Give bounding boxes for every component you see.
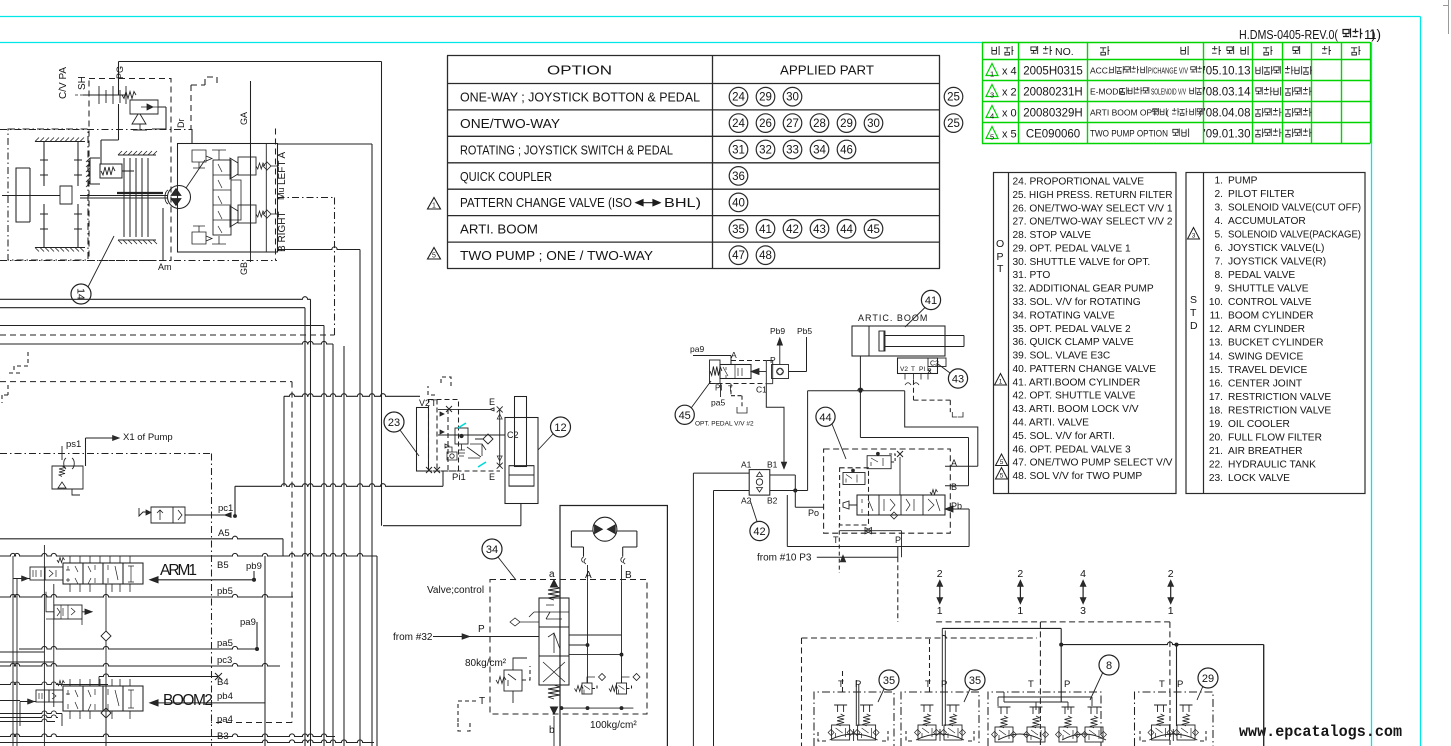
svg-text:34: 34: [486, 544, 498, 556]
svg-text:B5: B5: [217, 560, 229, 571]
C1 wire down to shuttle: [766, 384, 784, 464]
svg-text:46. OPT. PEDAL VALVE 3: 46. OPT. PEDAL VALVE 3: [1013, 444, 1131, 455]
svg-text:4: 4: [990, 112, 994, 121]
svg-text:E: E: [489, 472, 495, 482]
svg-text:O: O: [996, 238, 1004, 250]
dashed top/bottom of valve 45: [710, 361, 767, 384]
port wires: [0, 594, 293, 597]
svg-text:14: 14: [75, 288, 87, 300]
svg-text:pa4: pa4: [217, 714, 233, 725]
svg-text:44: 44: [819, 412, 831, 424]
svg-text:18.: 18.: [1209, 405, 1223, 416]
X marks at valve bottom: [426, 467, 440, 473]
svg-text:ARTI BOOM OPT.: ARTI BOOM OPT.: [1090, 108, 1159, 118]
svg-text:'08.04.08: '08.04.08: [1204, 108, 1251, 120]
port labels column: [217, 560, 262, 742]
svg-text:pa9: pa9: [240, 617, 256, 628]
STD parts list box: [1186, 173, 1365, 494]
svg-text:30: 30: [867, 118, 880, 130]
svg-text:C1: C1: [756, 385, 767, 395]
dash-dot control valve boundary: [0, 454, 212, 746]
svg-text:SOLENOID VALVE(CUT OFF): SOLENOID VALVE(CUT OFF): [1228, 203, 1361, 214]
svg-text:RESTRICTION VALVE: RESTRICTION VALVE: [1228, 405, 1331, 416]
svg-text:a: a: [549, 569, 555, 580]
svg-text:T: T: [479, 696, 485, 707]
svg-text:P: P: [478, 624, 485, 635]
svg-text:): ): [1199, 108, 1202, 118]
svg-text:25: 25: [947, 92, 960, 104]
svg-text:48. SOL V/V for TWO PUMP: 48. SOL V/V for TWO PUMP: [1013, 471, 1143, 482]
svg-text:33. SOL. V/V for ROTATING: 33. SOL. V/V for ROTATING: [1013, 297, 1141, 308]
44 labels: [808, 458, 962, 545]
svg-text:41: 41: [759, 224, 772, 236]
sub valve below ARM1: [54, 605, 82, 619]
svg-text:Mu: Mu: [276, 187, 286, 200]
OPT parts list box: [994, 173, 1177, 494]
svg-text:pb4: pb4: [217, 691, 233, 702]
svg-text:3: 3: [1192, 233, 1196, 240]
svg-text:ACCUMULATOR: ACCUMULATOR: [1228, 216, 1306, 227]
balloon 34: [482, 539, 502, 559]
svg-text:5: 5: [1000, 459, 1004, 466]
svg-text:T: T: [838, 679, 844, 690]
svg-text:BHL): BHL): [664, 196, 701, 210]
svg-text:Pb5: Pb5: [797, 326, 812, 336]
svg-text:QUICK COUPLER: QUICK COUPLER: [460, 170, 552, 184]
ARM1 output wire with left arrow: [150, 577, 254, 583]
svg-text:4.: 4.: [1215, 216, 1224, 227]
svg-text:B RIGHT: B RIGHT: [277, 211, 288, 252]
svg-text:26: 26: [759, 118, 772, 130]
svg-text:X1 of Pump: X1 of Pump: [123, 432, 173, 443]
svg-text:26. ONE/TWO-WAY SELECT V/V 1: 26. ONE/TWO-WAY SELECT V/V 1: [1013, 203, 1173, 214]
svg-text:T: T: [911, 366, 915, 373]
BOOM2 valve: [63, 686, 143, 711]
svg-text:17.: 17.: [1209, 392, 1223, 403]
X mark: [897, 451, 903, 457]
svg-text:1): 1): [1369, 27, 1381, 42]
svg-text:4: 4: [1080, 568, 1086, 580]
pattern change double arrow: [636, 200, 660, 206]
svg-text:12: 12: [554, 422, 566, 434]
svg-text:7.: 7.: [1215, 257, 1224, 268]
svg-text:A: A: [585, 570, 592, 581]
revision table (green): [982, 42, 1371, 144]
top wire PG: [119, 62, 382, 526]
svg-text:6.: 6.: [1215, 243, 1224, 254]
svg-text:P: P: [895, 535, 901, 545]
svg-text:CENTER JOINT: CENTER JOINT: [1228, 378, 1302, 389]
svg-text:V2: V2: [419, 398, 430, 408]
svg-text:TRAVEL DEVICE: TRAVEL DEVICE: [1228, 365, 1307, 376]
svg-text:x 2: x 2: [1002, 87, 1017, 99]
balloon 14: [71, 284, 91, 304]
svg-text:35: 35: [732, 224, 745, 236]
svg-text:Dr: Dr: [176, 119, 186, 129]
svg-text:12.: 12.: [1209, 324, 1223, 335]
svg-text:GA: GA: [239, 112, 249, 125]
svg-text:SWING DEVICE: SWING DEVICE: [1228, 351, 1303, 362]
svg-text:34. ROTATING VALVE: 34. ROTATING VALVE: [1013, 310, 1115, 321]
Am vertical: [162, 208, 164, 261]
svg-text:Po: Po: [808, 508, 819, 518]
svg-text:T: T: [925, 679, 931, 690]
svg-text:1: 1: [1017, 605, 1023, 617]
svg-text:B: B: [951, 482, 957, 492]
valve block box: [178, 144, 278, 253]
svg-text:A1: A1: [741, 460, 752, 470]
relief valves right side (trapezoids): [230, 158, 238, 179]
svg-text:29: 29: [759, 92, 772, 104]
svg-text:P: P: [855, 679, 861, 690]
svg-text:SH: SH: [77, 76, 88, 90]
svg-text:pb5: pb5: [217, 586, 233, 597]
inner dashed small boxes bottom: [818, 731, 1206, 741]
svg-text:'09.01.30: '09.01.30: [1204, 129, 1251, 141]
shuttle wires: [693, 473, 749, 746]
svg-text:CONTROL VALVE: CONTROL VALVE: [1228, 297, 1312, 308]
svg-text:3: 3: [1080, 605, 1086, 617]
spool 34: [539, 598, 569, 685]
svg-text:TWO PUMP OPTION: TWO PUMP OPTION: [1090, 129, 1168, 140]
svg-text:T: T: [1190, 307, 1197, 319]
svg-text:14.: 14.: [1209, 351, 1223, 362]
svg-text:P: P: [941, 679, 947, 690]
outer dashed box 44: [824, 449, 951, 533]
svg-text:SHUTTLE VALVE: SHUTTLE VALVE: [1228, 284, 1309, 295]
svg-text:25: 25: [947, 118, 960, 130]
svg-text:E-MODE: E-MODE: [1090, 87, 1124, 97]
svg-text:Pb9: Pb9: [770, 326, 785, 336]
svg-text:SOLENOID VALVE(PACKAGE): SOLENOID VALVE(PACKAGE): [1228, 230, 1361, 241]
lock valve 23: [417, 408, 429, 472]
svg-text:40: 40: [732, 197, 745, 209]
svg-text:8.: 8.: [1215, 270, 1224, 281]
svg-text:x 4: x 4: [1002, 66, 1017, 78]
svg-text:'08.03.14: '08.03.14: [1204, 87, 1252, 99]
group dash-dot boxes: [814, 692, 1213, 746]
svg-text:x 5: x 5: [1002, 129, 1017, 141]
balloon 23: [384, 412, 404, 432]
svg-text:39. SOL. VLAVE E3C: 39. SOL. VLAVE E3C: [1013, 351, 1111, 362]
diamond below BOOM2: [101, 708, 111, 718]
svg-text:45. SOL. V/V for ARTI.: 45. SOL. V/V for ARTI.: [1013, 431, 1115, 442]
svg-text:20.: 20.: [1209, 432, 1223, 443]
svg-text:1.: 1.: [1215, 176, 1224, 187]
svg-text:80kg/cm²: 80kg/cm²: [465, 658, 507, 669]
svg-text:30: 30: [786, 92, 799, 104]
inner dashed box: [840, 468, 869, 525]
svg-text:PG: PG: [115, 66, 125, 79]
svg-text:33: 33: [786, 145, 799, 157]
svg-text:APPLIED PART: APPLIED PART: [780, 64, 874, 78]
svg-text:35. OPT. PEDAL VALVE 2: 35. OPT. PEDAL VALVE 2: [1013, 324, 1131, 335]
svg-text:23.: 23.: [1209, 473, 1223, 484]
gearbox planetary gear symbol: [35, 142, 85, 248]
swing motor dashed box: [89, 79, 171, 261]
valve 23 internals and wires to cylinder: [438, 408, 494, 411]
Po wire: [787, 491, 969, 547]
svg-text:19.: 19.: [1209, 419, 1223, 430]
wire bundle y=486: [235, 471, 443, 516]
svg-text:LOCK VALVE: LOCK VALVE: [1228, 473, 1290, 484]
svg-text:PATTERN CHANGE VALVE (ISO: PATTERN CHANGE VALVE (ISO: [460, 196, 632, 210]
svg-text:3: 3: [990, 91, 994, 100]
svg-text:pc1: pc1: [218, 503, 233, 514]
svg-text:PI: PI: [715, 384, 723, 393]
svg-text:T: T: [1159, 679, 1165, 690]
dashed box 34: [490, 580, 647, 715]
svg-text:PUMP: PUMP: [1228, 176, 1258, 187]
svg-text:36. QUICK CLAMP VALVE: 36. QUICK CLAMP VALVE: [1013, 337, 1134, 348]
anti-cavitation valves top/bottom: [192, 150, 212, 168]
outer solid box of 34: [560, 506, 667, 746]
group 29 outer solid box: [1263, 645, 1265, 746]
svg-text:from #10 P3: from #10 P3: [757, 553, 812, 564]
svg-text:PI: PI: [919, 366, 925, 373]
svg-text:41. ARTI.BOOM CYLINDER: 41. ARTI.BOOM CYLINDER: [1013, 377, 1141, 388]
applied part balloons: [729, 87, 963, 264]
relief valve left: [504, 670, 522, 691]
motor loop: [571, 531, 593, 557]
svg-text:20080329H: 20080329H: [1023, 108, 1082, 120]
svg-text:35: 35: [969, 675, 981, 687]
svg-text:pa5: pa5: [217, 638, 233, 649]
svg-text:P: P: [1177, 679, 1183, 690]
svg-text:5: 5: [432, 253, 436, 260]
svg-text:AIR BREATHER: AIR BREATHER: [1228, 446, 1303, 457]
revision rows: content column mixed text: [1090, 66, 1312, 140]
cylinder 41 body: [852, 326, 945, 356]
balloon 12: [551, 417, 571, 437]
ARM1 valve: [63, 563, 143, 584]
svg-text:5: 5: [1000, 473, 1004, 480]
relief valves in 44: [867, 456, 891, 469]
svg-text:47: 47: [732, 250, 745, 262]
svg-text:GB: GB: [239, 262, 249, 275]
small shuttle + spring valve: [445, 444, 457, 460]
green triangles col1: [986, 64, 998, 76]
ARM1 valve top stubs: [70, 556, 130, 563]
svg-text:42. OPT. SHUTTLE VALVE: 42. OPT. SHUTTLE VALVE: [1013, 391, 1136, 402]
svg-text:11.: 11.: [1210, 311, 1223, 322]
shaft: [80, 196, 168, 199]
svg-text:JOYSTICK VALVE(L): JOYSTICK VALVE(L): [1228, 243, 1324, 254]
svg-text:2005H0315: 2005H0315: [1023, 66, 1082, 78]
svg-text:30. SHUTTLE VALVE for OPT.: 30. SHUTTLE VALVE for OPT.: [1013, 257, 1151, 268]
diamond check near C2: [475, 434, 493, 444]
svg-text:HYDRAULIC TANK: HYDRAULIC TANK: [1228, 459, 1316, 470]
svg-text:21.: 21.: [1209, 446, 1223, 457]
relief sub valve under pilot: [130, 100, 158, 114]
svg-text:NO.: NO.: [1055, 46, 1074, 58]
svg-text:41: 41: [925, 295, 937, 307]
svg-text:42: 42: [753, 526, 765, 538]
svg-text:24: 24: [732, 118, 745, 130]
svg-text:16.: 16.: [1209, 378, 1223, 389]
lock valve 43: [898, 358, 938, 374]
check line with bowtie: [839, 531, 901, 558]
svg-text:B2: B2: [767, 496, 778, 506]
svg-text:B: B: [625, 570, 632, 581]
valve block internals: spool stack: [213, 160, 231, 235]
svg-text:pb9: pb9: [246, 561, 262, 572]
svg-text:C2: C2: [507, 430, 519, 440]
svg-text:5: 5: [990, 133, 994, 142]
check valve + relief under ps1: [64, 458, 75, 469]
bottom bundle: [0, 740, 374, 743]
svg-text:29. OPT. PEDAL VALVE 1: 29. OPT. PEDAL VALVE 1: [1013, 243, 1131, 254]
svg-text:9.: 9.: [1215, 284, 1224, 295]
svg-text:BOOM CYLINDER: BOOM CYLINDER: [1228, 311, 1313, 322]
svg-text:43: 43: [952, 374, 964, 386]
svg-text:44. ARTI. VALVE: 44. ARTI. VALVE: [1013, 418, 1090, 429]
svg-text:TWO PUMP ; ONE / TWO-WAY: TWO PUMP ; ONE / TWO-WAY: [460, 249, 654, 263]
GA riser: [250, 81, 252, 252]
svg-text:A5: A5: [218, 528, 230, 539]
ARM1 left pilot boxes: [30, 567, 45, 580]
two small relief valves right: [582, 683, 592, 694]
svg-text:from #32: from #32: [393, 632, 433, 643]
svg-text:5.: 5.: [1215, 230, 1224, 241]
svg-text:LEFT A: LEFT A: [277, 152, 288, 185]
svg-text:40. PATTERN CHANGE VALVE: 40. PATTERN CHANGE VALVE: [1013, 364, 1157, 375]
small dashed bracket above: [428, 377, 451, 395]
svg-text:OIL COOLER: OIL COOLER: [1228, 419, 1290, 430]
svg-text:48: 48: [759, 250, 772, 262]
svg-text:S: S: [1190, 294, 1197, 306]
svg-text:13.: 13.: [1209, 338, 1223, 349]
svg-text:27. ONE/TWO-WAY SELECT V/V 2: 27. ONE/TWO-WAY SELECT V/V 2: [1013, 217, 1173, 228]
svg-text:OPT. PEDAL V/V #2: OPT. PEDAL V/V #2: [695, 421, 754, 428]
option table warning triangles: [428, 198, 441, 260]
P supply wires: [942, 628, 1061, 702]
swing device 14: gearbox dash-dot box: [8, 129, 88, 260]
diamond check a: [101, 631, 111, 641]
svg-text:22.: 22.: [1209, 459, 1223, 470]
svg-text:(: (: [1166, 108, 1169, 118]
svg-text:RESTRICTION VALVE: RESTRICTION VALVE: [1228, 392, 1331, 403]
T dashed risers: [843, 638, 1171, 746]
svg-text:Am: Am: [158, 262, 172, 272]
check valve block right of 45: [772, 365, 789, 379]
A5 wire + y=556 bundle: [0, 536, 283, 556]
svg-text:BOOM2: BOOM2: [163, 692, 213, 709]
svg-text:2: 2: [1017, 568, 1023, 580]
small dashed brackets top left: [8, 352, 28, 373]
svg-text:OPTION: OPTION: [547, 64, 612, 78]
svg-text:43: 43: [813, 224, 826, 236]
cylinder bottom out wire: [383, 504, 521, 526]
dashed T line of 43: [914, 380, 951, 412]
svg-text:ROTATING ; JOYSTICK SWITCH & P: ROTATING ; JOYSTICK SWITCH & PEDAL: [460, 143, 673, 157]
left harness horizontals: [0, 297, 311, 746]
svg-text:'05.10.13: '05.10.13: [1204, 66, 1251, 78]
dashed boxes above pedal groups: [936, 622, 1170, 692]
svg-text:ONE/TWO-WAY: ONE/TWO-WAY: [460, 117, 561, 131]
svg-text:pc3: pc3: [217, 655, 232, 666]
svg-text:pa9: pa9: [690, 344, 704, 354]
left vertical feeders: [13, 556, 54, 746]
T P labels: [838, 679, 1183, 690]
svg-text:24. PROPORTIONAL VALVE: 24. PROPORTIONAL VALVE: [1013, 177, 1145, 188]
svg-text:45: 45: [679, 410, 691, 422]
svg-text:46: 46: [840, 145, 853, 157]
svg-text:47. ONE/TWO PUMP SELECT V/V: 47. ONE/TWO PUMP SELECT V/V: [1013, 458, 1173, 469]
svg-text:ARM1: ARM1: [160, 562, 197, 579]
svg-text:31. PTO: 31. PTO: [1013, 270, 1051, 281]
svg-text:PILOT FILTER: PILOT FILTER: [1228, 189, 1294, 200]
svg-text:D: D: [1190, 320, 1198, 332]
swing block bottom dash-dot: [0, 130, 277, 261]
svg-text:E: E: [927, 366, 932, 373]
svg-text:2: 2: [937, 568, 943, 580]
svg-text:28. STOP VALVE: 28. STOP VALVE: [1013, 230, 1092, 241]
svg-text:C2: C2: [930, 361, 939, 368]
svg-text:1: 1: [937, 605, 943, 617]
svg-text:34: 34: [813, 145, 826, 157]
svg-text:29: 29: [840, 118, 853, 130]
motor circle: [593, 517, 617, 541]
brake pilot comb: [83, 86, 126, 104]
svg-text:E: E: [489, 397, 495, 407]
svg-text:15.: 15.: [1209, 365, 1223, 376]
svg-text:BUCKET CYLINDER: BUCKET CYLINDER: [1228, 338, 1323, 349]
svg-text:ARTI. BOOM: ARTI. BOOM: [460, 223, 538, 237]
arm cylinder 12: [515, 397, 527, 467]
svg-text:P/CHANGE V/V: P/CHANGE V/V: [1148, 67, 1189, 76]
brake clutch plates: [118, 155, 156, 240]
group 35 #1 P stub: [856, 680, 859, 726]
svg-text:PEDAL VALVE: PEDAL VALVE: [1228, 270, 1295, 281]
svg-text:Pi1: Pi1: [452, 472, 466, 483]
LEFT A / B RIGHT wires: [278, 144, 373, 746]
svg-text:2: 2: [1168, 568, 1174, 580]
svg-text:45: 45: [867, 224, 880, 236]
svg-text:P: P: [997, 251, 1004, 263]
svg-text:x 0: x 0: [1002, 108, 1017, 120]
svg-text:C/V PA: C/V PA: [58, 67, 69, 99]
pc1 solenoid valve: [151, 507, 185, 523]
svg-text:ARM CYLINDER: ARM CYLINDER: [1228, 324, 1305, 335]
brake release piston: [90, 158, 100, 184]
svg-text:A: A: [731, 350, 737, 360]
hydraulic motor circle: [168, 186, 191, 209]
svg-text:T: T: [997, 263, 1004, 275]
balloon 45: [675, 405, 694, 424]
svg-text:ONE-WAY ; JOYSTICK BOTTON & PE: ONE-WAY ; JOYSTICK BOTTON & PEDAL: [460, 91, 700, 105]
svg-text:32: 32: [759, 145, 772, 157]
svg-text:10.: 10.: [1209, 297, 1223, 308]
svg-text:3.: 3.: [1215, 203, 1224, 214]
svg-text:ps1: ps1: [66, 439, 81, 450]
svg-text:8: 8: [1106, 660, 1112, 672]
svg-text:44: 44: [840, 224, 853, 236]
svg-text:28: 28: [813, 118, 826, 130]
option table: [447, 56, 940, 269]
svg-text:T: T: [833, 535, 839, 545]
svg-text:ACC.: ACC.: [1090, 66, 1110, 76]
svg-text:P: P: [1064, 679, 1070, 690]
svg-text:CE090060: CE090060: [1026, 129, 1080, 141]
pedal rocker arcs (groups): [830, 729, 1198, 741]
svg-text:1: 1: [1168, 605, 1174, 617]
svg-text:32. ADDITIONAL GEAR PUMP: 32. ADDITIONAL GEAR PUMP: [1013, 284, 1154, 295]
svg-text:H.DMS-0405-REV.0(: H.DMS-0405-REV.0(: [1239, 27, 1339, 42]
svg-text:25. HIGH PRESS. RETURN FILTER: 25. HIGH PRESS. RETURN FILTER: [1013, 190, 1173, 201]
wire bundle y=396: [284, 394, 420, 487]
motor to valve diagonal: [186, 160, 205, 188]
